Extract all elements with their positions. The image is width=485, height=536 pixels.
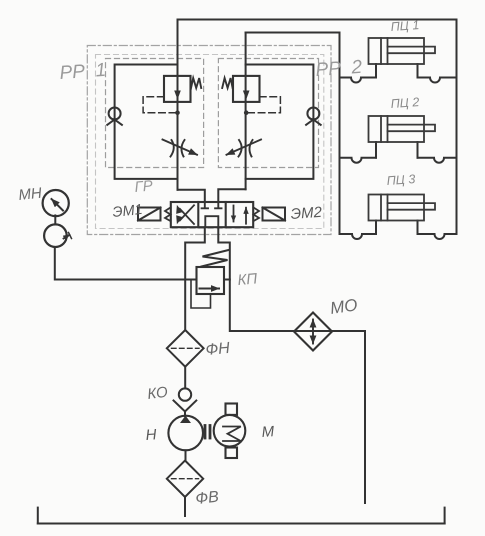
wire: cyl2 left port xyxy=(375,142,377,158)
check valve KO xyxy=(174,388,197,411)
check valve in PP2 bypass xyxy=(306,108,321,125)
wire: line B riser xyxy=(245,33,247,190)
reducing valve PP2 body xyxy=(233,76,260,102)
spring left of valve GR xyxy=(165,208,171,222)
cylinder PC3 xyxy=(369,195,436,221)
relief valve KP flow arrow xyxy=(200,288,220,290)
reducing valve PP2 spring xyxy=(222,78,232,88)
wire: PP1 bypass loop xyxy=(115,65,178,179)
wire: cyl2 row right with dip xyxy=(418,158,457,163)
directional valve GR body xyxy=(171,202,253,227)
wire: right bus xyxy=(456,20,458,235)
reducing valve PP1 flow arrow xyxy=(174,91,181,100)
valve GR right position parallel arrows xyxy=(234,206,247,224)
wire: cyl3 row right with dip xyxy=(418,234,457,239)
svg-text:МН: МН xyxy=(18,185,43,204)
wire: line A riser xyxy=(177,20,179,190)
spring right of valve GR xyxy=(254,208,260,222)
svg-text:Н: Н xyxy=(145,426,157,444)
valve GR centre position blocked ports and bypass xyxy=(202,202,222,227)
wire: cyl2 row left with dip xyxy=(340,158,377,163)
svg-text:РР 1: РР 1 xyxy=(59,60,107,84)
valve GR left position arrowheads xyxy=(176,205,182,214)
coupling pump-motor xyxy=(205,426,210,439)
wire: valve GR P port down to pressure riser xyxy=(185,227,205,330)
svg-text:ГР: ГР xyxy=(134,177,154,196)
reducing valve PP1 body xyxy=(164,76,191,102)
gauge cock below MN xyxy=(44,224,67,247)
filter FN xyxy=(167,330,204,367)
wire: valve GR T port down to return riser xyxy=(218,227,365,503)
cylinder PC2 xyxy=(369,116,436,142)
valve block PP1 dashed box xyxy=(106,59,204,168)
valve block PP2 dashed box xyxy=(218,59,318,168)
wire: FN filter to KO check xyxy=(184,367,186,389)
svg-text:КП: КП xyxy=(237,270,258,289)
solenoid EM1 xyxy=(138,208,161,221)
wire: cyl1 right port xyxy=(417,64,419,78)
pump N flow triangle xyxy=(180,416,191,423)
wire: left bus xyxy=(339,33,341,235)
wire: cyl3 row left with dip xyxy=(340,234,377,239)
svg-text:ЭМ2: ЭМ2 xyxy=(290,204,323,223)
svg-text:КО: КО xyxy=(146,384,169,403)
wire: cyl1 row left with dip xyxy=(340,78,377,83)
enclosure dash-dot boundary xyxy=(87,46,331,235)
wire: manometer line to pressure riser and KP input xyxy=(55,247,197,280)
reducing valve PP1 pilot line xyxy=(143,97,177,113)
cylinder PC1 xyxy=(369,38,436,64)
svg-text:ПЦ 1: ПЦ 1 xyxy=(390,18,419,34)
throttle PP1 (adjustable, arrow) xyxy=(163,140,198,157)
pump N xyxy=(168,416,203,451)
wire: cyl3 left port xyxy=(375,221,377,235)
relief valve KP pilot line xyxy=(191,280,211,309)
node: PP1 pilot junction xyxy=(175,110,180,115)
wire: inner top run to left bus xyxy=(246,32,340,34)
heat exchanger MO xyxy=(294,313,332,351)
motor M xyxy=(214,404,246,459)
wire: A jog into valve GR xyxy=(178,190,205,202)
wire: KP output xyxy=(224,279,230,281)
wire: B jog into valve GR xyxy=(218,189,245,202)
wire: top outer run to right bus xyxy=(178,19,457,21)
relief valve KP spring xyxy=(202,250,229,267)
wire: PP2 bypass loop xyxy=(246,65,314,179)
relief valve KP body xyxy=(197,267,225,294)
check valve in PP1 bypass xyxy=(107,108,122,125)
reducing valve PP2 flow arrow xyxy=(243,91,250,100)
motor M letter xyxy=(223,427,241,442)
wire: cyl3 right port xyxy=(417,221,419,235)
wire: cyl1 row right with dip xyxy=(418,78,457,83)
svg-text:ЭМ1: ЭМ1 xyxy=(112,202,144,221)
filter FV xyxy=(167,461,203,498)
node: PP2 pilot junction xyxy=(244,110,249,115)
wire: pump to FV filter xyxy=(185,450,187,460)
svg-text:МО: МО xyxy=(329,295,359,318)
reducing valve PP2 pilot line xyxy=(246,97,280,113)
throttle PP2 (adjustable, arrow) xyxy=(227,140,262,157)
svg-text:ФН: ФН xyxy=(205,340,231,359)
svg-text:ПЦ 3: ПЦ 3 xyxy=(386,172,416,188)
wire: manometer connector xyxy=(54,215,56,224)
svg-text:ФВ: ФВ xyxy=(195,489,220,508)
solenoid EM2 xyxy=(263,208,286,221)
inner dashed enclosure xyxy=(96,55,324,229)
svg-text:РР 2: РР 2 xyxy=(315,57,363,81)
wire: KO check to pump xyxy=(184,411,186,416)
wire: FV filter to tank xyxy=(184,497,186,516)
tank reservoir xyxy=(38,508,445,524)
valve GR left position crossed arrows xyxy=(180,205,194,224)
wire: cyl1 left port xyxy=(375,64,377,78)
manometer MN xyxy=(43,190,69,216)
wire: cyl2 right port xyxy=(417,142,419,158)
svg-text:ПЦ 2: ПЦ 2 xyxy=(390,95,420,111)
svg-text:М: М xyxy=(261,423,275,441)
reducing valve PP1 spring xyxy=(191,78,201,89)
